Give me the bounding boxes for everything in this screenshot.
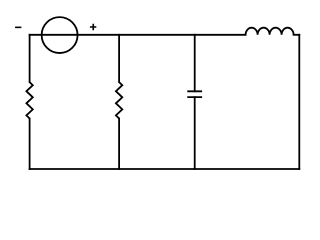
resistor R1 (26, 82, 32, 118)
resistor R2 (116, 82, 122, 118)
inductor L1 (246, 28, 294, 35)
voltage source V1 (42, 17, 78, 53)
capacitor C1 (187, 91, 202, 97)
wire capacitor branch upper (top to C1) (194, 35, 196, 92)
wire middle branch upper (top to R2) (118, 35, 120, 82)
wire bottom (30, 168, 300, 170)
wire right side (298, 35, 300, 169)
wire capacitor branch lower (C1 to bottom) (194, 97, 196, 169)
wire top right (inductor to corner) (294, 34, 300, 36)
wire left upper (source to R1) (29, 35, 31, 82)
label - (negative terminal) (15, 26, 21, 28)
wire top (source to inductor) (30, 34, 246, 36)
wire middle branch lower (R2 to bottom) (118, 119, 120, 170)
wire left lower (R1 to bottom) (29, 119, 31, 170)
label + (positive terminal) (90, 24, 96, 30)
